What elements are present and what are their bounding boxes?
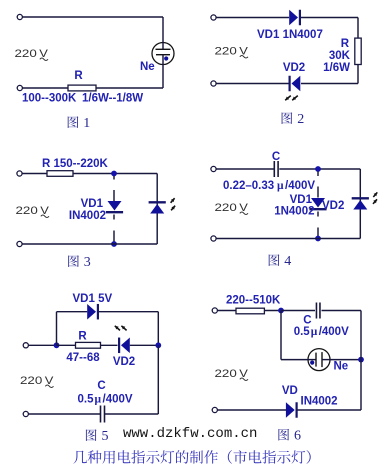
terminal: fig4 AC input bottom: [211, 236, 216, 241]
svg-text:/400V: /400V: [285, 180, 315, 192]
terminal: fig1 AC input top: [17, 14, 22, 19]
label 220V AC (fig3): [16, 205, 50, 218]
svg-text:VD: VD: [282, 385, 298, 397]
svg-text:1/6W--1/8W: 1/6W--1/8W: [82, 93, 143, 105]
svg-text:/400V: /400V: [103, 393, 133, 405]
node: fig4 top junction: [315, 166, 321, 172]
wire: fig6 bottom rail left of VD: [215, 409, 286, 411]
svg-text:47--68: 47--68: [66, 352, 100, 364]
wire: fig5 VD1 branch up/over/down: [56, 312, 58, 346]
wire: fig2 top rail right of VD1: [300, 17, 358, 19]
svg-text:0.22–0.33: 0.22–0.33: [223, 180, 274, 192]
svg-text:μ: μ: [95, 393, 102, 405]
wire: fig2 top rail left of VD1: [214, 17, 290, 19]
wire: fig3 VD1 branch (dashed): [113, 176, 115, 180]
svg-text:220: 220: [215, 202, 237, 214]
wire: fig4 top rail right of C: [279, 168, 360, 170]
resistor R 30K (fig2): [355, 38, 361, 64]
terminal: fig4 AC input top: [211, 166, 216, 171]
terminal: fig2 AC input top: [211, 15, 216, 20]
svg-text:R: R: [78, 331, 87, 343]
svg-text:5: 5: [102, 429, 109, 444]
caption 图5: [86, 429, 109, 444]
svg-text:30K: 30K: [329, 50, 351, 62]
svg-text:IN4002: IN4002: [301, 396, 338, 408]
wire: fig6 bottom rail right of VD: [297, 409, 361, 411]
label 220V AC (fig6): [215, 368, 249, 381]
label 220V AC (fig4): [215, 202, 249, 215]
terminal: fig5 AC input top: [23, 343, 28, 348]
LED VD2 (fig2): [285, 76, 300, 100]
terminal: fig6 AC input top: [212, 308, 217, 313]
terminal: fig6 AC input bottom: [212, 407, 217, 412]
svg-text:μ: μ: [277, 180, 284, 192]
diode VD IN4002 (fig6): [286, 402, 297, 418]
wire: fig6 neon to right rail: [330, 359, 361, 361]
node: fig6 top junction: [278, 308, 284, 314]
svg-text:220: 220: [15, 48, 37, 60]
svg-text:Ne: Ne: [334, 361, 349, 373]
svg-text:R: R: [74, 70, 83, 82]
node: fig5 right junction: [155, 342, 161, 348]
svg-text:/400V: /400V: [319, 326, 349, 338]
svg-text:Ne: Ne: [140, 61, 155, 73]
svg-text:R 150--220K: R 150--220K: [42, 158, 109, 170]
node: fig3 bottom junction: [111, 241, 117, 247]
svg-text:1/6W: 1/6W: [323, 62, 350, 74]
terminal: fig5 AC input bottom: [23, 411, 28, 416]
capacitor C 0.22--0.33u/400V (fig4): [274, 161, 278, 177]
wire: fig3 bottom rail: [20, 243, 158, 245]
wire: fig1 neon to bottom rail: [162, 64, 164, 88]
wire: fig3 top rail left part: [20, 173, 48, 175]
wire: fig3 top rail right part: [73, 173, 157, 175]
capacitor C 0.5u/400V (fig5): [101, 406, 105, 423]
label 220V AC (fig1): [15, 48, 49, 61]
resistor 220--510K (fig6): [236, 308, 264, 314]
wire: fig5 bottom rail right of C: [105, 413, 159, 415]
svg-text:VD2: VD2: [113, 356, 135, 368]
svg-text:VD1: VD1: [290, 194, 313, 206]
svg-text:IN4002: IN4002: [69, 210, 106, 222]
node: fig5 left junction: [54, 342, 60, 348]
svg-text:220--510K: 220--510K: [226, 295, 281, 307]
wire: fig6 top rail C to corner: [322, 310, 362, 312]
LED VD2 (fig5): [115, 326, 130, 353]
label 220V AC (fig2): [215, 46, 249, 59]
neon lamp Ne (fig1): [152, 42, 174, 65]
label 220V AC (fig5): [20, 375, 54, 388]
terminal: fig2 AC input bottom: [211, 81, 216, 86]
svg-text:6: 6: [294, 429, 301, 444]
wire: fig4 bottom rail: [214, 238, 361, 240]
svg-text:VD2: VD2: [283, 62, 305, 74]
wire: fig6 top rail R to junction: [264, 310, 281, 312]
wire: fig1 bottom rail right part: [96, 87, 163, 89]
wire: fig2 bottom rail right of VD2: [301, 83, 358, 85]
wire: fig1 top rail: [20, 16, 163, 18]
diode VD1 5V (fig5): [87, 304, 98, 320]
svg-text:μ: μ: [311, 326, 318, 338]
wire: fig4 top rail left of C: [214, 168, 274, 170]
caption 图3: [68, 255, 91, 270]
svg-text:220: 220: [20, 375, 42, 387]
svg-text:2: 2: [297, 112, 304, 127]
svg-text:1: 1: [83, 116, 90, 131]
LED VD2 (fig4): [352, 192, 378, 209]
svg-text:VD2: VD2: [322, 200, 344, 212]
svg-text:VD1: VD1: [81, 198, 104, 210]
svg-text:0.5: 0.5: [78, 393, 95, 405]
diode VD1 1N4007 (fig2): [289, 10, 300, 26]
capacitor C 0.5u/400V (fig6): [316, 303, 320, 319]
diode VD1 IN4002 (fig3): [106, 201, 123, 212]
svg-text:C: C: [303, 315, 311, 327]
svg-text:VD1 1N4007: VD1 1N4007: [257, 29, 323, 41]
svg-text:220: 220: [16, 205, 38, 217]
wire: fig5 bottom rail left of C: [26, 413, 101, 415]
svg-text:4: 4: [284, 254, 291, 269]
caption 图2: [282, 112, 305, 127]
wire: fig2 right rail top: [357, 18, 359, 39]
svg-text:R: R: [341, 38, 350, 50]
title 几种用电指示灯的制作（市电指示灯）: [73, 450, 310, 464]
wire: fig1 bottom rail left part: [20, 87, 68, 89]
neon lamp Ne (fig6): [308, 349, 331, 371]
resistor R 47--68 (fig5): [76, 342, 101, 348]
svg-text:www.dzkfw.com.cn: www.dzkfw.com.cn: [123, 426, 257, 442]
wire: fig6 right rail: [360, 311, 362, 411]
wire: fig2 bottom rail left of VD2: [214, 83, 290, 85]
wire: fig4 VD1 branch (dashed): [317, 172, 319, 177]
resistor R 150--220K (fig3): [47, 171, 73, 177]
svg-text:220: 220: [215, 368, 237, 380]
svg-text:VD1 5V: VD1 5V: [73, 293, 113, 305]
terminal: fig3 AC input bottom: [17, 241, 22, 246]
svg-text:C: C: [272, 151, 280, 163]
caption 图6: [278, 429, 301, 444]
svg-text:1N4002: 1N4002: [274, 206, 314, 218]
wire: fig5 right rail down: [157, 345, 159, 414]
wire: fig5 middle branch segments: [57, 344, 76, 346]
wire: fig3 LED branch right side: [156, 174, 158, 245]
caption 图4: [269, 254, 292, 269]
wire: fig2 right rail bottom: [357, 65, 359, 84]
wire: fig6 top rail junction to C: [281, 310, 315, 312]
svg-text:C: C: [97, 380, 105, 392]
caption 图1: [68, 116, 91, 131]
wire: fig6 top rail left of R: [215, 310, 236, 312]
svg-text:220: 220: [215, 46, 237, 58]
node: fig3 top junction: [111, 171, 117, 177]
wire: fig1 right drop to neon: [162, 17, 164, 43]
svg-text:100--300K: 100--300K: [22, 93, 77, 105]
svg-text:3: 3: [84, 255, 91, 270]
resistor R (fig1): [68, 85, 96, 91]
diode VD1 1N4002 (fig4): [309, 198, 326, 209]
wire: fig6 junction down to neon: [280, 311, 282, 360]
wire: fig5 input to left junction: [26, 344, 57, 346]
LED (fig3): [149, 198, 176, 213]
node: fig6 right junction: [358, 357, 364, 363]
wire: fig4 right rail: [359, 169, 361, 239]
terminal: fig1 AC input bottom: [17, 85, 22, 90]
svg-text:0.5: 0.5: [294, 326, 311, 338]
terminal: fig3 AC input top: [17, 171, 22, 176]
node: fig4 bottom junction: [315, 236, 321, 242]
